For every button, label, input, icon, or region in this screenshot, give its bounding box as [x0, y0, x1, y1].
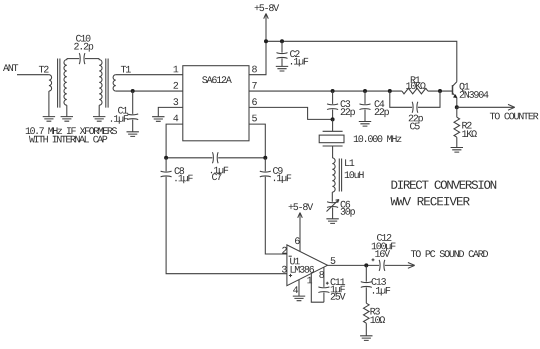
- node bottom left: [164, 156, 168, 160]
- transformer T2: [39, 59, 67, 108]
- node crystal junction: [331, 117, 335, 121]
- ground C2: [276, 66, 288, 71]
- wire T2 secondary to ground: [66, 105, 68, 116]
- node R1 left: [388, 89, 392, 93]
- ground op-amp pin 4: [293, 296, 305, 301]
- note text: [26, 127, 117, 142]
- ground R3: [360, 336, 372, 341]
- wire T1 to pin 1: [116, 74, 183, 76]
- capacitor C9: [260, 158, 291, 254]
- capacitor C13: [361, 265, 390, 303]
- wire pin 4 down: [166, 124, 183, 158]
- capacitor C5: [390, 91, 440, 129]
- resistor R1: [402, 76, 453, 93]
- node C1 junction: [131, 89, 135, 93]
- wire ANT to T2 primary: [17, 74, 49, 76]
- capacitor C8: [161, 158, 287, 274]
- wire bottom row pins 4-5: [166, 157, 265, 159]
- wire to counter: [457, 104, 539, 119]
- ground C4: [359, 122, 371, 127]
- ground R2: [451, 148, 463, 153]
- ground T1 primary: [93, 117, 105, 122]
- wire top rail: [266, 41, 457, 82]
- resistor R3: [364, 303, 386, 335]
- ground C6: [326, 219, 338, 224]
- wire C10 to T1: [85, 58, 99, 60]
- ground pin 3: [152, 117, 164, 122]
- node C4 tap: [363, 89, 367, 93]
- node ANT: [3, 64, 18, 71]
- capacitor C7: [211, 152, 228, 180]
- wire pin 6 jog: [249, 107, 333, 119]
- wire T1 primary to ground: [98, 105, 100, 116]
- power +5-8V: [255, 4, 280, 41]
- node C3 tap: [331, 89, 335, 93]
- node output junction: [364, 263, 368, 267]
- capacitor C10: [74, 35, 93, 64]
- capacitor C11 gain: [311, 267, 345, 302]
- wire to PC sound card: [385, 250, 488, 268]
- op-amp U1 LM386: [282, 237, 335, 293]
- power +5-8V op-amp: [289, 203, 314, 251]
- inductor L1: [332, 158, 363, 192]
- node rail pin8: [264, 39, 268, 43]
- node bottom right: [263, 156, 267, 160]
- node rail C2: [280, 39, 284, 43]
- capacitor C1: [111, 91, 138, 132]
- ground T2 secondary: [61, 117, 73, 122]
- wire pin 8 to rail: [249, 41, 266, 74]
- wire T2 to C10: [67, 58, 79, 60]
- capacitor C2: [277, 41, 309, 66]
- node emitter junction: [455, 105, 459, 109]
- ground C1: [127, 132, 139, 137]
- capacitor C4: [360, 91, 389, 121]
- title text: [391, 180, 497, 205]
- node R1 right: [438, 89, 442, 93]
- ground T2 primary: [43, 117, 55, 122]
- wire T1 to pin 2: [116, 90, 183, 92]
- capacitor C12: [372, 234, 396, 271]
- capacitor C3: [327, 91, 355, 119]
- wire pin 4 op-amp: [298, 280, 300, 296]
- transistor Q1: [453, 82, 489, 108]
- wire T2 primary to ground: [48, 91, 50, 116]
- crystal Y1 10.000 MHz: [319, 119, 401, 157]
- capacitor C6 trimmer: [327, 192, 355, 219]
- wire output pin 5: [328, 264, 380, 266]
- resistor R2: [454, 107, 477, 147]
- wire pin 3 stub: [158, 107, 183, 116]
- IC U2 SA612A: [173, 66, 257, 141]
- wire pin 7 row: [249, 90, 402, 92]
- wire pin 5 down: [249, 124, 265, 158]
- transformer T1: [99, 59, 131, 108]
